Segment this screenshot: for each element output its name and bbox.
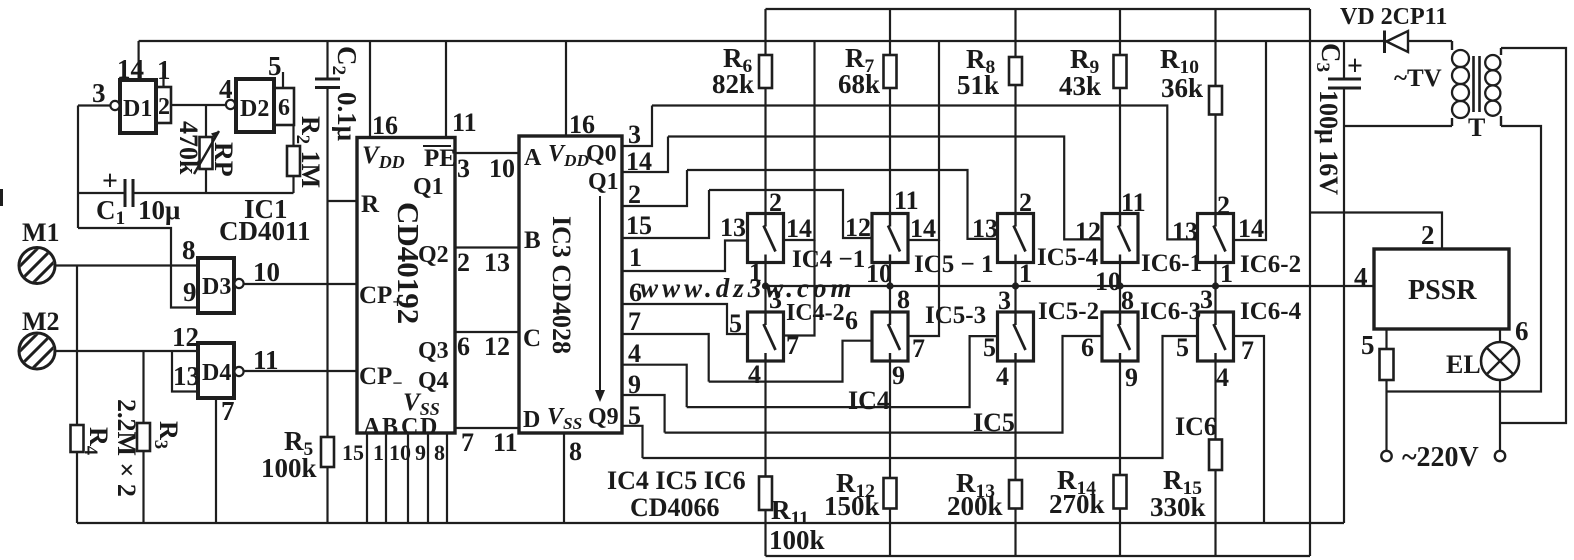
svg-text:5: 5 xyxy=(729,309,742,338)
wire D1 pin14 riser xyxy=(138,41,140,80)
transformer T secondary xyxy=(1500,48,1502,55)
fuse and PSSR pin 5 xyxy=(1385,329,1387,451)
wire IC4-1 pin 14 to VDD riser xyxy=(784,41,815,240)
svg-text:~TV: ~TV xyxy=(1394,65,1442,92)
wire track T1 to IC6-2 control xyxy=(652,106,1198,240)
wire switch column 2 mid link xyxy=(889,263,891,313)
svg-text:9: 9 xyxy=(892,361,905,390)
svg-text:13: 13 xyxy=(1172,217,1198,246)
svg-text:1: 1 xyxy=(1220,259,1233,288)
wire track T4 to IC5-1 control xyxy=(709,190,872,238)
svg-text:IC4: IC4 xyxy=(848,386,890,415)
svg-text:C: C xyxy=(401,414,418,440)
svg-text:7: 7 xyxy=(912,334,925,363)
svg-text:82k: 82k xyxy=(712,69,754,99)
svg-text:IC3 CD4028: IC3 CD4028 xyxy=(547,216,576,354)
svg-text:36k: 36k xyxy=(1161,73,1203,103)
gate D2 xyxy=(236,79,274,132)
wire D2 pin5 stub xyxy=(282,72,284,88)
potentiometer RP riser xyxy=(205,105,207,137)
wire track B2 to IC5-3 control xyxy=(709,341,872,382)
svg-text:IC5: IC5 xyxy=(973,408,1015,437)
wire IC3 Q5 pin6 to IC4-2 control xyxy=(622,304,748,334)
svg-text:C: C xyxy=(523,325,541,352)
resistor R6 column xyxy=(764,9,766,214)
wire long vertical bus to PSSR pin 2 xyxy=(1309,9,1311,556)
svg-text:14: 14 xyxy=(626,147,652,176)
wire D1 pin1 stub xyxy=(162,72,164,87)
svg-text:+: + xyxy=(102,166,118,197)
gate D3 xyxy=(198,258,234,313)
svg-text:13: 13 xyxy=(720,213,746,242)
svg-text:14: 14 xyxy=(910,214,936,243)
svg-text:9: 9 xyxy=(183,277,197,307)
resistor R13 column xyxy=(1014,361,1016,556)
wire track T2 to IC6-1 control xyxy=(668,137,1102,240)
wire IC2 pin 16 riser xyxy=(369,41,371,138)
wire IC2 pin 8 to ground xyxy=(446,433,448,523)
svg-text:IC6-3: IC6-3 xyxy=(1140,298,1201,325)
svg-text:1: 1 xyxy=(157,55,171,85)
svg-text:7: 7 xyxy=(628,307,641,336)
wire track T3 to IC5-4 control xyxy=(687,170,998,239)
analog switch IC5-2 xyxy=(998,312,1034,361)
svg-text:+: + xyxy=(1347,51,1363,82)
svg-text:4: 4 xyxy=(1354,262,1368,292)
terminal mains left xyxy=(1381,451,1391,461)
arrow Q1 to Q9 inside IC3 xyxy=(599,196,601,396)
wire C2 to reset pin R xyxy=(326,88,328,202)
resistor R9 column xyxy=(1119,9,1121,214)
svg-text:M2: M2 xyxy=(22,307,60,336)
wire D4 output to CP- xyxy=(244,370,357,372)
wire D1-D2 coupling xyxy=(171,104,226,106)
wire IC2 pin 10 to ground xyxy=(407,433,409,523)
resistor R5 xyxy=(321,437,334,467)
svg-text:VD 2CP11: VD 2CP11 xyxy=(1340,4,1447,30)
svg-text:4: 4 xyxy=(1216,363,1229,392)
wire IC5-3 pin 7 link xyxy=(908,240,939,336)
svg-text:7: 7 xyxy=(221,396,235,426)
wire IC3 Q9 pin5 stub to track B5 xyxy=(622,426,643,458)
svg-text:7: 7 xyxy=(461,428,474,457)
node D4 output bubble xyxy=(234,367,243,376)
wire IC2 pin 11 riser xyxy=(445,41,447,138)
capacitor C2 xyxy=(326,41,328,79)
svg-text:IC6-2: IC6-2 xyxy=(1240,251,1301,278)
svg-text:12: 12 xyxy=(845,213,871,242)
svg-text:D3: D3 xyxy=(202,274,231,300)
svg-text:6: 6 xyxy=(845,306,858,335)
svg-text:7: 7 xyxy=(1241,336,1254,365)
resistor R14 column xyxy=(1119,361,1121,556)
svg-text:PSSR: PSSR xyxy=(1408,275,1477,306)
svg-text:11: 11 xyxy=(452,108,477,137)
svg-text:B: B xyxy=(382,414,398,440)
resistor R12 column xyxy=(889,361,891,556)
wire IC3 Q8 pin9 stub to track B4 xyxy=(622,395,665,433)
wire ground rail xyxy=(77,522,1344,524)
svg-text:5: 5 xyxy=(1176,333,1189,362)
wire branch to PSSR pin 2 xyxy=(1310,213,1442,250)
wire IC6-2 pin 14 to VDD riser xyxy=(1234,41,1267,240)
wire M1 node down to R4 xyxy=(76,266,78,524)
svg-text:8: 8 xyxy=(897,285,910,314)
svg-text:13: 13 xyxy=(972,214,998,243)
wire M2 to D4 pin 12 xyxy=(55,350,198,352)
svg-text:8: 8 xyxy=(434,440,445,465)
wire reset node down to R5 xyxy=(326,201,328,437)
svg-text:11: 11 xyxy=(493,428,518,457)
terminal mains right xyxy=(1495,451,1505,461)
svg-text:IC5-2: IC5-2 xyxy=(1038,298,1099,325)
svg-text:Q1: Q1 xyxy=(588,169,619,195)
potentiometer RP lower lead xyxy=(205,169,207,193)
svg-text:10μ: 10μ xyxy=(138,195,180,225)
svg-text:2: 2 xyxy=(1217,191,1230,220)
wire IC2 pin 1 to ground xyxy=(385,433,387,523)
resistor R15 column xyxy=(1214,361,1216,556)
svg-text:3: 3 xyxy=(998,286,1011,315)
node D3 output bubble xyxy=(234,279,243,288)
svg-text:B: B xyxy=(524,227,541,254)
wire M2 node down to R3 xyxy=(142,351,144,523)
svg-text:10: 10 xyxy=(489,154,515,183)
svg-text:2: 2 xyxy=(1019,188,1032,217)
gate D2 input box pin 6 xyxy=(274,88,294,125)
svg-text:11: 11 xyxy=(894,186,919,215)
svg-text:100μ 16V: 100μ 16V xyxy=(1314,90,1343,195)
wire secondary bottom to fuse side xyxy=(1387,126,1542,392)
wire IC2 pin7 to IC3 pin11 xyxy=(455,427,519,429)
svg-text:0.1μ: 0.1μ xyxy=(332,92,362,141)
solid state relay PSSR xyxy=(1374,249,1509,329)
svg-text:2: 2 xyxy=(1421,220,1435,250)
svg-text:4: 4 xyxy=(628,339,641,368)
svg-text:4: 4 xyxy=(996,362,1009,391)
IC2 CD40192 box xyxy=(357,138,455,434)
svg-text:Q1: Q1 xyxy=(413,174,444,200)
svg-text:1: 1 xyxy=(373,440,384,465)
node output bus junctions xyxy=(762,282,769,289)
svg-text:14: 14 xyxy=(786,214,812,243)
svg-text:200k: 200k xyxy=(947,491,1003,521)
svg-text:www.dz3w.com: www.dz3w.com xyxy=(640,273,856,303)
wire IC3 pin 8 to ground xyxy=(563,433,565,523)
svg-text:330k: 330k xyxy=(1150,492,1206,522)
wire IC5-1 pin 14 to VDD riser xyxy=(908,41,939,240)
analog switch IC6-1 xyxy=(1102,214,1138,263)
svg-text:51k: 51k xyxy=(957,70,999,100)
analog switch IC4-2 xyxy=(748,312,784,361)
svg-text:IC5-3: IC5-3 xyxy=(925,302,986,329)
wire C1 node to D3 input xyxy=(78,228,198,308)
wire IC3 Q1 pin14 stub to track T2 xyxy=(622,137,668,173)
wire IC2 pin3 to IC3 pin10 xyxy=(455,152,519,154)
wire IC6-4 pin 7 to ground xyxy=(1234,336,1265,523)
svg-text:10: 10 xyxy=(1095,267,1121,296)
wire IC3 Q2 pin2 stub to track T3 xyxy=(622,170,687,206)
svg-text:1: 1 xyxy=(629,243,642,272)
wire switch column 1 mid link xyxy=(764,263,766,313)
wire secondary top to EL side xyxy=(1500,48,1566,423)
svg-text:CD4011: CD4011 xyxy=(219,216,311,246)
svg-text:RP: RP xyxy=(209,142,238,177)
lamp EL and PSSR pin 6 xyxy=(1499,329,1501,342)
transformer T primary xyxy=(1451,41,1453,50)
svg-text:2: 2 xyxy=(457,248,470,277)
svg-text:IC5-4: IC5-4 xyxy=(1037,244,1099,271)
wire IC2 pin 9 to ground xyxy=(427,433,429,523)
svg-text:9: 9 xyxy=(628,370,641,399)
svg-text:6: 6 xyxy=(1515,316,1529,346)
wire IC3 pin 16 riser xyxy=(565,41,567,136)
svg-text:D: D xyxy=(523,407,540,433)
resistor R11 column xyxy=(764,361,766,556)
svg-text:1: 1 xyxy=(1019,259,1032,288)
svg-text:8: 8 xyxy=(569,437,582,466)
svg-text:5: 5 xyxy=(628,401,641,430)
svg-text:12: 12 xyxy=(484,332,510,361)
svg-text:2: 2 xyxy=(158,94,170,120)
svg-text:3: 3 xyxy=(457,154,470,183)
svg-text:IC4 −1: IC4 −1 xyxy=(792,246,865,273)
wire VDD top rail xyxy=(139,40,1452,42)
wire D3 output to CP+ xyxy=(244,283,357,285)
wire switch column 5 mid link xyxy=(1214,263,1216,313)
analog switch IC6-4 xyxy=(1198,312,1234,361)
analog switch IC5-1 xyxy=(872,214,908,263)
svg-text:2: 2 xyxy=(769,188,782,217)
wire M1 to D3 pin 8 xyxy=(55,264,198,266)
resistor R2 xyxy=(287,146,300,176)
IC3 CD4028 box xyxy=(519,136,622,433)
svg-text:R2 1M: R2 1M xyxy=(292,116,325,188)
wire track B5 to IC6-4 control xyxy=(643,336,1198,458)
svg-text:PE: PE xyxy=(424,145,456,172)
svg-text:100k: 100k xyxy=(261,453,317,483)
gate D1 input box pin 2 xyxy=(156,87,171,123)
wire IC3 Q4 pin1 to IC4-1 control xyxy=(622,241,748,272)
svg-text:6: 6 xyxy=(1081,333,1094,362)
svg-text:10: 10 xyxy=(253,257,280,287)
svg-text:2: 2 xyxy=(628,180,641,209)
svg-text:Q3: Q3 xyxy=(418,338,449,364)
svg-text:6: 6 xyxy=(457,332,470,361)
wire IC3 Q7 pin4 stub to track B3 xyxy=(622,365,687,407)
svg-text:470k: 470k xyxy=(174,121,203,175)
svg-text:3: 3 xyxy=(92,78,106,108)
svg-text:IC4 IC5 IC6: IC4 IC5 IC6 xyxy=(607,466,746,495)
svg-text:3: 3 xyxy=(1200,285,1213,314)
svg-text:4: 4 xyxy=(748,360,761,389)
capacitor C3 xyxy=(1343,41,1345,79)
analog switch IC5-3 xyxy=(872,312,908,361)
node D2 input bubble pin 4 xyxy=(226,100,235,109)
wire IC3 Q0 pin3 stub to track T1 xyxy=(622,106,652,147)
svg-text:D2: D2 xyxy=(240,96,269,122)
svg-text:D4: D4 xyxy=(202,360,231,386)
svg-text:12: 12 xyxy=(1075,217,1101,246)
resistor R4 xyxy=(71,425,84,452)
svg-text:R: R xyxy=(361,191,380,218)
wire bottom resistor bus xyxy=(766,555,1311,557)
svg-text:T: T xyxy=(1468,113,1485,142)
wire IC2 pin6 to IC3 pin12 xyxy=(455,331,519,333)
wire D4 pin 13 jog xyxy=(172,351,198,392)
svg-text:IC6: IC6 xyxy=(1175,412,1217,441)
svg-text:13: 13 xyxy=(484,248,510,277)
analog switch IC6-3 xyxy=(1102,312,1138,361)
svg-text:D1: D1 xyxy=(123,96,152,122)
wire IC4-2 pin 7 link xyxy=(784,240,815,336)
svg-text:15: 15 xyxy=(626,211,652,240)
svg-text:15: 15 xyxy=(342,440,364,465)
wire track B4 to IC6-3 control xyxy=(665,336,1102,433)
resistor R2 lead from D2 xyxy=(292,125,294,193)
resistor R10 column xyxy=(1214,9,1216,214)
gate D1 xyxy=(120,80,156,133)
svg-text:IC6-4: IC6-4 xyxy=(1240,298,1302,325)
svg-text:IC6-1: IC6-1 xyxy=(1141,250,1202,277)
wire IC3 Q6 pin7 stub to track B2 xyxy=(622,334,709,382)
wire IC3 Q3 pin15 stub to track T4 xyxy=(622,190,709,238)
svg-text:5: 5 xyxy=(268,51,282,81)
svg-text:A: A xyxy=(363,414,381,440)
capacitor C1 xyxy=(78,192,125,194)
wire primary bottom return to C3 xyxy=(1344,125,1452,127)
wire D4 pin 7 to ground xyxy=(215,398,217,523)
svg-text:43k: 43k xyxy=(1059,71,1101,101)
svg-text:9: 9 xyxy=(1125,363,1138,392)
wire switch column 4 mid link xyxy=(1119,263,1121,313)
wire top distribution rail (R6-R10 tops) xyxy=(766,8,1311,10)
svg-text:14: 14 xyxy=(1238,214,1264,243)
resistor R3 xyxy=(137,423,150,451)
svg-text:8: 8 xyxy=(1121,286,1134,315)
svg-text:13: 13 xyxy=(173,361,200,391)
svg-text:9: 9 xyxy=(415,440,426,465)
svg-text:CD4066: CD4066 xyxy=(630,493,720,522)
svg-text:11: 11 xyxy=(1121,188,1146,217)
resistor R7 column xyxy=(889,9,891,214)
svg-text:EL: EL xyxy=(1446,350,1481,379)
gate D4 xyxy=(198,343,234,398)
svg-text:~220V: ~220V xyxy=(1402,442,1479,473)
svg-text:Q0: Q0 xyxy=(586,141,617,167)
analog switch IC4-1 xyxy=(748,214,784,263)
svg-text:5: 5 xyxy=(1361,330,1375,360)
wire left column down xyxy=(77,106,79,229)
resistor R8 column xyxy=(1014,9,1016,214)
svg-text:5: 5 xyxy=(983,333,996,362)
svg-text:8: 8 xyxy=(182,235,196,265)
svg-text:100k: 100k xyxy=(769,525,825,555)
wire switch column 3 mid link xyxy=(1014,263,1016,313)
svg-text:150k: 150k xyxy=(824,491,880,521)
wire IC2 pin2 to IC3 pin13 xyxy=(455,246,519,248)
svg-text:Q2: Q2 xyxy=(418,242,449,268)
svg-text:A: A xyxy=(524,145,542,171)
svg-text:6: 6 xyxy=(278,95,290,121)
svg-text:IC5 − 1: IC5 − 1 xyxy=(914,251,994,278)
svg-text:270k: 270k xyxy=(1049,489,1105,519)
analog switch IC6-2 xyxy=(1198,214,1234,263)
svg-text:12: 12 xyxy=(172,322,199,352)
left edge tick xyxy=(0,189,3,206)
wire IC2 pin 15 to ground xyxy=(366,433,368,523)
wire analog switch output bus to PSSR pin 4 xyxy=(766,285,1375,287)
svg-text:Q9: Q9 xyxy=(588,404,619,430)
svg-text:68k: 68k xyxy=(838,69,880,99)
svg-text:3: 3 xyxy=(628,120,641,149)
analog switch IC5-4 xyxy=(998,214,1034,263)
potentiometer RP xyxy=(205,137,207,169)
svg-text:Q4: Q4 xyxy=(418,368,449,394)
svg-text:10: 10 xyxy=(389,440,411,465)
svg-text:16: 16 xyxy=(372,111,398,140)
svg-text:16: 16 xyxy=(569,110,595,139)
svg-text:M1: M1 xyxy=(22,218,60,247)
wire track B3 to IC5-2 control xyxy=(687,336,998,407)
transformer T core xyxy=(1472,56,1475,112)
wire D1 output to left column xyxy=(78,104,110,106)
